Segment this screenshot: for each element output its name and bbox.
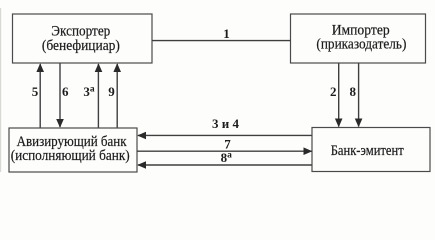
arrow 3a: Авизирующий банк -> Экспортер (up)	[95, 63, 103, 127]
arrow 8: Импортер -> Банк-эмитент (down)	[355, 64, 363, 128]
arrow 2: Импортер -> Банк-эмитент (down)	[335, 64, 343, 128]
svg-text:8: 8	[350, 84, 357, 99]
svg-text:5: 5	[32, 84, 39, 99]
svg-text:(приказодатель): (приказодатель)	[316, 36, 406, 52]
arrow 3 и 4: Банк-эмитент -> Авизирующий банк (left)	[137, 132, 312, 140]
svg-text:(бенефициар): (бенефициар)	[42, 38, 120, 54]
wire 1: contract line between Экспортер and Импортер	[152, 40, 291, 42]
arrow 8a: Банк-эмитент -> Авизирующий банк (left)	[137, 161, 312, 169]
arrow 7: Авизирующий банк -> Банк-эмитент (right)	[137, 147, 312, 155]
svg-text:2: 2	[330, 84, 337, 99]
svg-text:3 и 4: 3 и 4	[212, 116, 239, 131]
box Импортер (приказодатель)	[291, 14, 426, 63]
box Авизирующий банк (исполняющий банк)	[9, 128, 137, 172]
arrow 9: Авизирующий банк -> Экспортер (up)	[113, 63, 121, 127]
scan edge streak left	[0, 8, 1, 172]
svg-text:9: 9	[108, 84, 115, 99]
box Банк-эмитент	[312, 128, 430, 172]
svg-text:1: 1	[223, 26, 230, 41]
arrow 6: Экспортер -> Авизирующий банк (down)	[56, 64, 64, 128]
svg-text:6: 6	[62, 84, 69, 99]
svg-text:(исполняющий банк): (исполняющий банк)	[11, 148, 130, 164]
svg-text:Банк-эмитент: Банк-эмитент	[331, 143, 404, 159]
box Экспортер (бенефициар)	[13, 14, 153, 63]
arrow 5: Авизирующий банк -> Экспортер (up)	[36, 63, 44, 127]
